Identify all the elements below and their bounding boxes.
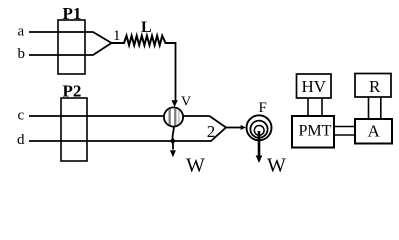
svg-text:R: R [369, 77, 381, 96]
svg-text:d: d [17, 132, 25, 148]
svg-text:2: 2 [207, 122, 216, 141]
svg-text:F: F [259, 100, 267, 116]
svg-text:HV: HV [302, 77, 327, 96]
svg-text:a: a [18, 24, 25, 40]
svg-text:P2: P2 [63, 82, 82, 101]
svg-text:W: W [186, 155, 205, 175]
svg-text:W: W [267, 155, 286, 175]
svg-text:b: b [18, 46, 26, 62]
svg-text:c: c [18, 108, 25, 124]
svg-text:1: 1 [113, 28, 121, 44]
svg-text:PMT: PMT [299, 122, 332, 139]
svg-text:P1: P1 [63, 4, 82, 23]
svg-text:L: L [141, 19, 152, 36]
svg-text:A: A [368, 121, 381, 140]
svg-text:V: V [181, 95, 191, 110]
